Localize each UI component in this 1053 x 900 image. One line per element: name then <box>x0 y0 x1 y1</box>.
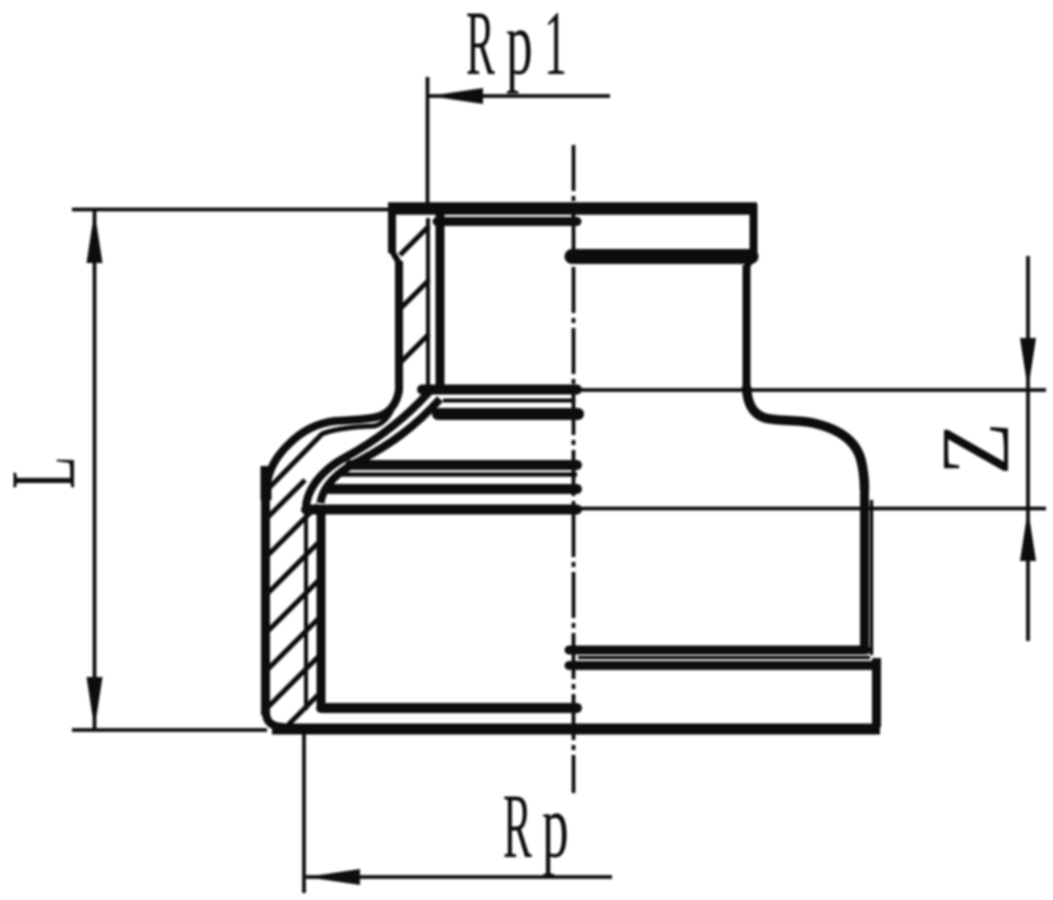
svg-text:R: R <box>466 0 495 94</box>
svg-text:L: L <box>0 456 95 489</box>
svg-text:1: 1 <box>544 0 567 94</box>
svg-text:R: R <box>503 775 532 877</box>
svg-text:p: p <box>542 776 569 878</box>
svg-text:p: p <box>506 0 533 95</box>
svg-text:Z: Z <box>921 422 1029 475</box>
